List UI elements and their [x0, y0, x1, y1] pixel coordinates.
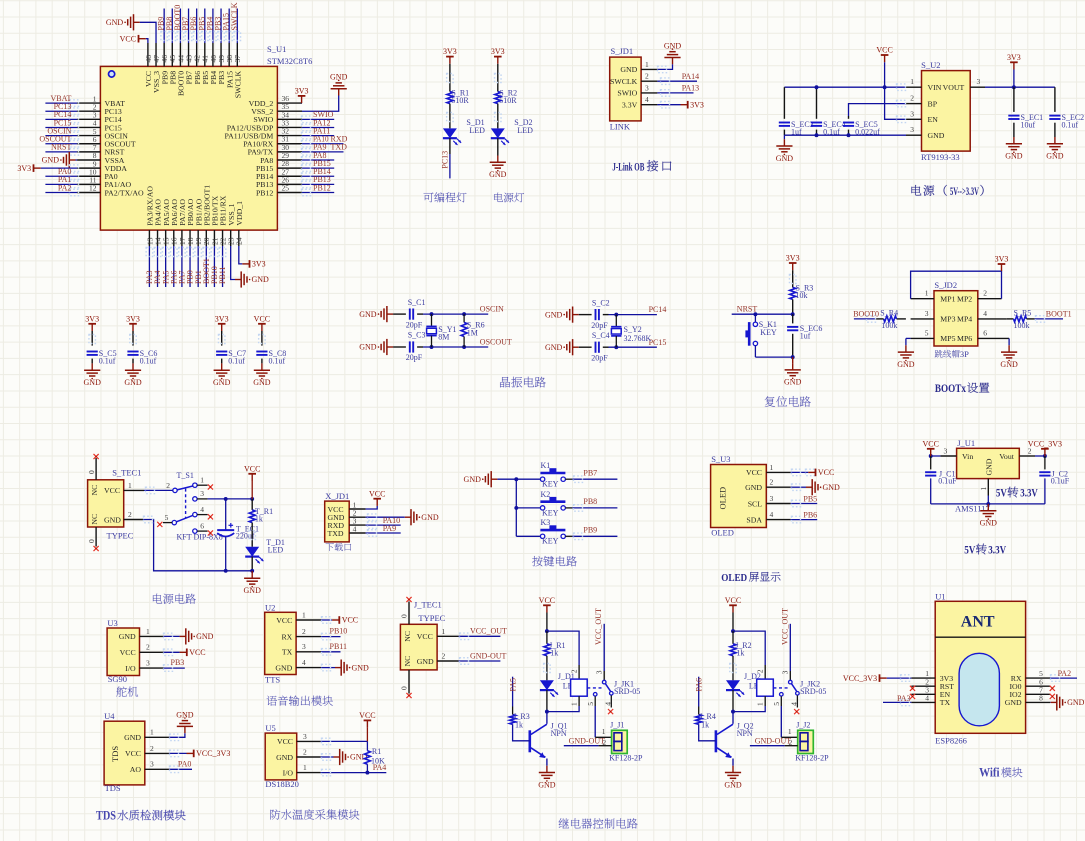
- svg-text:MP6: MP6: [957, 334, 972, 343]
- wire net PC13 (U1 pin 2): [45, 102, 78, 114]
- svg-text:S_C4: S_C4: [592, 331, 610, 340]
- wire net PA13 (S_JD1 pin 3): [657, 84, 699, 97]
- svg-text:VIN: VIN: [928, 83, 942, 92]
- svg-text:VCC_OUT: VCC_OUT: [780, 608, 789, 645]
- svg-text:3V3: 3V3: [786, 254, 800, 263]
- connector X_JD1 value: [326, 543, 352, 551]
- svg-text:STM32C8T6: STM32C8T6: [267, 56, 312, 66]
- svg-text:J_U1: J_U1: [957, 438, 975, 448]
- svg-text:PA2: PA2: [58, 183, 72, 192]
- svg-text:2: 2: [303, 747, 307, 756]
- wire net PA12 (U1 pin 33): [302, 118, 335, 130]
- svg-text:3: 3: [200, 489, 204, 498]
- svg-text:SWCLK: SWCLK: [234, 71, 243, 99]
- wire+ground (U3 pin 1): [163, 628, 213, 644]
- connector U5 pins: [276, 732, 321, 778]
- connector S_JD2 body: [934, 291, 978, 346]
- svg-text:GND: GND: [42, 156, 60, 165]
- svg-text:GND: GND: [1005, 152, 1023, 161]
- svg-text:1k: 1k: [550, 648, 558, 657]
- svg-text:3.3V: 3.3V: [1020, 488, 1038, 500]
- power VCC (power circuit): [244, 464, 260, 481]
- svg-text:AO: AO: [130, 765, 142, 774]
- svg-text:TYPEC: TYPEC: [418, 613, 445, 623]
- svg-text:NRST: NRST: [737, 305, 758, 314]
- wire net PA6 (U1 pin 16): [169, 246, 178, 287]
- LED S_D1: [443, 118, 485, 145]
- svg-text:1k: 1k: [736, 648, 744, 657]
- svg-text:PA2/TX/AO: PA2/TX/AO: [105, 188, 145, 197]
- IC J_U1 body: [957, 448, 1020, 478]
- svg-text:K3: K3: [541, 518, 551, 527]
- ground (relay 1): [538, 766, 556, 790]
- wire+ground (U1 pin 8): [1050, 694, 1085, 710]
- svg-text:PA6: PA6: [695, 678, 704, 692]
- svg-text:3: 3: [302, 642, 306, 651]
- svg-text:AMS1117: AMS1117: [955, 504, 990, 514]
- svg-text:1: 1: [302, 610, 306, 619]
- svg-text:4: 4: [645, 95, 649, 104]
- caption crystal circuit: [500, 377, 546, 388]
- capacitor S_C6 0.1uf (3V3 bypass): [124, 314, 157, 387]
- wire net PA11 (U1 pin 32): [302, 126, 335, 138]
- svg-text:GND: GND: [545, 310, 563, 319]
- power VCC (input): [876, 46, 892, 90]
- wire keys common bus: [497, 477, 540, 536]
- power VCC (U1 pin 48): [120, 34, 148, 43]
- power VCC_3V3 (U4 pin 2): [169, 749, 230, 758]
- svg-text:PB8: PB8: [583, 497, 597, 506]
- svg-text:0: 0: [400, 686, 409, 690]
- svg-text:GND-OUT: GND-OUT: [470, 651, 507, 660]
- capacitor J_C1 0.1uF: [925, 456, 957, 504]
- caption servo: [116, 686, 138, 696]
- svg-text:4: 4: [200, 505, 204, 514]
- wire net BOOT1: [1035, 309, 1072, 322]
- svg-text:10k: 10k: [796, 291, 808, 300]
- IC J_U1 value AMS1117: [955, 504, 990, 514]
- wire net PB8 (U1 pin 45): [165, 9, 176, 44]
- ground VSSA (U1 pin 8): [42, 152, 77, 168]
- power VCC_3V3 (U1 pin 1): [843, 674, 911, 683]
- svg-text:MP5: MP5: [940, 334, 955, 343]
- svg-text:0.1uF: 0.1uF: [1051, 477, 1070, 486]
- wire net PB4 (U1 pin 40): [205, 9, 216, 44]
- svg-text:GND: GND: [928, 131, 945, 140]
- capacitor S_EC5 0.022uf: [843, 116, 880, 137]
- svg-text:0: 0: [87, 470, 96, 474]
- connector S_JD1 body: [610, 57, 641, 121]
- svg-text:ESP8266: ESP8266: [935, 736, 967, 746]
- svg-text:TXD: TXD: [328, 529, 344, 538]
- power 3V3 (BOOTx): [995, 255, 1009, 272]
- capacitor T_EC1 220uf: [217, 499, 259, 573]
- svg-text:3V3: 3V3: [17, 164, 31, 173]
- svg-text:Vin: Vin: [962, 452, 973, 461]
- svg-text:VCC: VCC: [277, 737, 293, 746]
- svg-text:PA0: PA0: [178, 760, 192, 769]
- svg-text:PB11: PB11: [218, 267, 227, 285]
- connector J_TEC1 body: [400, 624, 437, 670]
- svg-text:OSCOUT: OSCOUT: [480, 338, 512, 347]
- resistor J_R2 1k: [730, 631, 752, 657]
- wire+ground up (U4 pin 1): [169, 710, 193, 740]
- svg-text:3: 3: [944, 446, 948, 455]
- caption voice output module: [267, 696, 333, 706]
- svg-text:RX: RX: [281, 632, 292, 641]
- connector S_JD2 reference: [934, 280, 957, 290]
- svg-text:PA13: PA13: [682, 84, 700, 93]
- wire net PA10 (U1 pin 31): [302, 135, 348, 147]
- svg-text:PB6: PB6: [803, 510, 817, 519]
- wire LED to collector (relay 1): [545, 690, 549, 713]
- svg-text:BOOTx: BOOTx: [935, 383, 966, 395]
- svg-text:TDS: TDS: [110, 746, 120, 762]
- IC S_U2 body: [922, 71, 971, 152]
- svg-text:PB3: PB3: [171, 658, 185, 667]
- svg-text:8M: 8M: [438, 333, 449, 342]
- svg-text:PB10: PB10: [330, 627, 348, 636]
- svg-text:BOOT1: BOOT1: [1046, 309, 1072, 318]
- svg-text:37: 37: [233, 55, 242, 63]
- resistor J_R4 1k (base): [696, 707, 716, 741]
- relay coil J_JK2: [733, 679, 826, 712]
- svg-text:OLED: OLED: [717, 487, 727, 510]
- svg-text:3P: 3P: [960, 349, 969, 359]
- svg-text:5: 5: [586, 702, 595, 706]
- svg-text:J_J1: J_J1: [610, 720, 624, 729]
- svg-text:3.3V: 3.3V: [622, 101, 638, 110]
- wire net PA0 (U1 pin 10): [45, 167, 78, 179]
- no-connect pin 0 (J_TEC1 top): [400, 597, 412, 624]
- svg-text:VCC_3V3: VCC_3V3: [196, 749, 230, 758]
- svg-text:VCC_OUT: VCC_OUT: [594, 608, 603, 645]
- connector S_JD1 pins: [610, 60, 657, 110]
- svg-text:S_C2: S_C2: [592, 298, 610, 307]
- svg-text:20pF: 20pF: [406, 321, 423, 330]
- wire net PB14 (U1 pin 27): [302, 167, 335, 179]
- connector U3 body: [107, 628, 139, 676]
- wire net PA4 (U5 pin 1): [321, 763, 387, 776]
- svg-text:S_U1: S_U1: [267, 44, 286, 54]
- svg-text:2: 2: [983, 289, 987, 298]
- svg-text:OLED: OLED: [711, 528, 734, 538]
- connector U4 body: [104, 721, 145, 785]
- svg-text:GND: GND: [176, 710, 194, 719]
- power 3V3 (LED circuit 2): [491, 47, 505, 64]
- power 3V3 (reset): [786, 254, 800, 271]
- svg-text:S_C1: S_C1: [408, 298, 426, 307]
- caption 电源灯: [494, 193, 524, 203]
- svg-text:MP4: MP4: [957, 315, 972, 324]
- svg-text:S_TEC1: S_TEC1: [112, 467, 141, 477]
- wire+ground (X_JD1 pin 2): [366, 509, 439, 525]
- svg-text:3V3: 3V3: [1007, 53, 1021, 62]
- svg-text:TDS: TDS: [105, 783, 121, 793]
- resistor S_R3 10k: [790, 283, 814, 300]
- wire net PB9 (U1 pin 46): [157, 9, 168, 44]
- svg-text:GND: GND: [823, 483, 841, 492]
- transistor J_Q2 NPN: [716, 712, 754, 766]
- svg-text:KEY: KEY: [542, 537, 559, 546]
- svg-text:U3: U3: [107, 618, 117, 628]
- wire EN tie to VIN: [885, 87, 906, 122]
- svg-text:SDA: SDA: [746, 515, 762, 524]
- svg-text:TX: TX: [282, 648, 293, 657]
- connector U5 body: [265, 733, 297, 780]
- svg-text:3: 3: [770, 494, 774, 503]
- svg-text:1: 1: [910, 77, 914, 86]
- wire OSCIN: [423, 305, 504, 316]
- wire net PB7 (U1 pin 43): [181, 9, 192, 44]
- ground (U1 pin 23 VSS_1): [231, 246, 269, 288]
- connector J_TEC1 value TYPEC: [418, 613, 445, 623]
- wire net PA3 (U1 pin 13): [145, 246, 154, 287]
- svg-text:TTS: TTS: [265, 674, 280, 684]
- svg-text:SRD-05: SRD-05: [800, 687, 826, 696]
- connector U2 reference: [265, 602, 275, 612]
- wire to LED (relay 1): [544, 656, 551, 681]
- svg-text:GND: GND: [538, 780, 556, 789]
- svg-text:T_S1: T_S1: [177, 471, 194, 480]
- svg-text:VCC: VCC: [120, 648, 136, 657]
- svg-text:GND: GND: [124, 733, 141, 742]
- transistor J_Q1 NPN: [530, 712, 568, 766]
- pushbutton K1 KEY: [540, 461, 565, 489]
- connector J_TEC1 pins: [403, 627, 459, 667]
- wire node to coil (relay 2): [733, 631, 765, 679]
- svg-text:MP2: MP2: [957, 295, 972, 304]
- svg-text:GND: GND: [275, 663, 292, 672]
- svg-text:GND: GND: [776, 154, 794, 163]
- capacitor S_C3 20pF: [393, 331, 425, 362]
- svg-text:VOUT: VOUT: [943, 83, 965, 92]
- svg-text:NC: NC: [403, 656, 412, 667]
- svg-text:VCC: VCC: [189, 648, 205, 657]
- svg-text:1: 1: [146, 627, 150, 636]
- connector U3 value SG90: [108, 674, 127, 684]
- wire net PB5 (U1 pin 41): [197, 9, 208, 44]
- svg-text:2: 2: [302, 627, 306, 636]
- svg-text:PB12: PB12: [256, 188, 273, 197]
- resistor S_R5 100k: [1007, 308, 1035, 330]
- svg-text:GND: GND: [421, 513, 439, 522]
- ground (MP5): [897, 338, 915, 369]
- svg-text:1: 1: [979, 487, 988, 491]
- module U1 reference: [935, 591, 945, 601]
- svg-text:S_JD1: S_JD1: [611, 46, 634, 56]
- svg-text:0.1uF: 0.1uF: [938, 477, 957, 486]
- connector S_U3 reference: [711, 454, 730, 464]
- wire net BOOT0: [853, 309, 879, 322]
- wire net PB6 (S_U3 pin 4): [791, 510, 818, 522]
- svg-text:S_Y2: S_Y2: [624, 325, 642, 334]
- svg-text:3: 3: [910, 125, 914, 134]
- wire net PB12 (U1 pin 25): [302, 183, 335, 195]
- svg-text:1: 1: [200, 475, 204, 484]
- capacitor S_EC3 1uf: [779, 87, 814, 136]
- svg-text:GND: GND: [276, 753, 293, 762]
- svg-text:PB9: PB9: [583, 526, 597, 535]
- svg-text:I/O: I/O: [283, 768, 294, 777]
- ground (relay 2): [724, 766, 742, 790]
- svg-text:GND: GND: [784, 378, 802, 387]
- svg-text:3V3: 3V3: [443, 47, 457, 56]
- svg-text:GND: GND: [489, 170, 507, 179]
- connector U4 pins: [124, 728, 169, 774]
- ground (S_C1 left): [359, 306, 393, 322]
- svg-text:2: 2: [645, 72, 649, 81]
- capacitor S_C2 20pF: [579, 298, 610, 330]
- wire net PA5 (relay 1 base): [509, 677, 518, 707]
- svg-text:3: 3: [910, 109, 914, 118]
- ground (U1 pin 47 VSS_3): [106, 14, 156, 43]
- connector S_JD2 pins MP1-MP6: [911, 289, 1010, 344]
- wire T_D1 to ground: [250, 557, 254, 573]
- wire net OSCIN (U1 pin 5): [45, 126, 78, 138]
- relay contacts J_JK2: [772, 608, 799, 737]
- power VCC (J_U1 Vin): [922, 439, 940, 458]
- caption BOOTx setting: [935, 382, 989, 395]
- connector X_JD1 reference: [325, 491, 349, 501]
- connector U3 reference: [107, 618, 117, 628]
- wire net PA0 (U4 pin 3): [169, 760, 192, 773]
- svg-text:3V3: 3V3: [215, 314, 229, 323]
- wire net PA15 (U1 pin 38): [222, 9, 233, 44]
- svg-text:U1: U1: [935, 591, 945, 601]
- module U1 pins: [911, 669, 1050, 707]
- svg-text:0: 0: [400, 614, 409, 618]
- svg-text:0: 0: [87, 539, 96, 543]
- wire net PA3 (U1 pin 4): [883, 694, 911, 705]
- ground (power circuit): [244, 571, 262, 595]
- svg-text:VCC: VCC: [120, 34, 136, 43]
- svg-text:Wifi: Wifi: [979, 766, 1000, 780]
- svg-text:1: 1: [128, 481, 132, 490]
- svg-text:VCC_3V3: VCC_3V3: [843, 674, 877, 683]
- IC U1 STM32C8T6 body: [100, 66, 277, 230]
- ground (S_C4 left): [545, 339, 579, 355]
- connector S_JD1 reference: [611, 46, 634, 56]
- ground (S_C3 left): [359, 339, 393, 355]
- resistor S_R6 1M: [461, 314, 484, 347]
- pushbutton K3 KEY: [540, 518, 565, 546]
- caption reset circuit: [765, 396, 811, 407]
- connector S_JD2 value: [935, 349, 969, 359]
- svg-text:1: 1: [602, 727, 606, 736]
- wire VCC to node (relay 1): [545, 613, 549, 634]
- no-connect (U1 pin 3 EN): [910, 694, 915, 699]
- svg-text:1: 1: [925, 289, 929, 298]
- wire net PA2 (U1 pin 12): [45, 183, 78, 195]
- wire VCC rail to pin 3: [321, 728, 368, 745]
- svg-text:1: 1: [442, 627, 446, 636]
- svg-text:510R: 510R: [451, 96, 469, 105]
- svg-text:S_R5: S_R5: [1014, 308, 1032, 317]
- power 3V3 (U1 pin 9): [17, 164, 78, 173]
- connector S_TEC1 body: [88, 480, 124, 527]
- svg-text:KEY: KEY: [542, 508, 559, 517]
- svg-text:10uf: 10uf: [1021, 120, 1036, 129]
- svg-text:GND: GND: [1067, 698, 1085, 707]
- svg-text:3V3: 3V3: [295, 87, 309, 96]
- IC S_U2 pins: [906, 77, 985, 140]
- svg-text:K2: K2: [541, 490, 551, 499]
- power VCC (relay 2): [725, 596, 741, 613]
- svg-text:J_TEC1: J_TEC1: [414, 600, 442, 610]
- svg-text:KF128-2P: KF128-2P: [609, 754, 643, 763]
- svg-text:NC: NC: [403, 631, 412, 642]
- resistor S_R1 510R: [447, 89, 470, 106]
- svg-text:ANT: ANT: [961, 614, 995, 631]
- svg-text:KEY: KEY: [760, 328, 777, 337]
- svg-text:U2: U2: [265, 602, 275, 612]
- svg-text:TYPEC: TYPEC: [107, 530, 134, 540]
- svg-text:PA2: PA2: [1058, 669, 1072, 678]
- no-connect pin 0 (J_TEC1 bottom): [400, 670, 412, 698]
- wire node to T_R1: [251, 499, 253, 510]
- svg-text:VCC: VCC: [254, 314, 270, 323]
- svg-text:PB11: PB11: [330, 642, 348, 651]
- connector S_JD1 value LINK: [610, 122, 631, 132]
- connector X_JD1 pins: [328, 500, 366, 537]
- svg-text:GND: GND: [724, 780, 742, 789]
- wire net PB3 (U1 pin 39): [214, 9, 225, 44]
- IC U1 left pins 1-12: [77, 94, 144, 197]
- terminal J_J2 KF128-2P: [750, 720, 829, 762]
- svg-text:3: 3: [150, 760, 154, 769]
- svg-text:2: 2: [128, 510, 132, 519]
- wire net NRST: [732, 305, 795, 317]
- caption TDS module: [96, 809, 186, 823]
- wire+ground (S_JD1 pin 1): [657, 41, 681, 72]
- svg-text:GND: GND: [124, 378, 142, 387]
- svg-text:5V: 5V: [996, 488, 1008, 500]
- svg-text:OSCIN: OSCIN: [480, 305, 504, 314]
- svg-text:LINK: LINK: [610, 122, 631, 132]
- svg-text:1: 1: [645, 60, 649, 69]
- svg-text:NPN: NPN: [551, 729, 567, 738]
- svg-text:TX: TX: [940, 698, 951, 707]
- svg-text:I/O: I/O: [125, 664, 136, 673]
- wire net PA5 (U1 pin 15): [161, 246, 170, 287]
- wire net PB15 (U1 pin 28): [302, 159, 335, 171]
- svg-text:GND: GND: [252, 275, 270, 284]
- svg-text:VCC: VCC: [539, 596, 555, 605]
- svg-text:SCL: SCL: [748, 499, 763, 508]
- svg-text:VCC_OUT: VCC_OUT: [470, 627, 507, 636]
- svg-text:4: 4: [770, 510, 774, 519]
- connector S_TEC1 value TYPEC: [107, 530, 134, 540]
- wire net OSCOUT (U1 pin 6): [39, 135, 78, 147]
- wire net PC13 (below S_D1): [441, 138, 450, 178]
- svg-text:GND: GND: [417, 657, 434, 666]
- svg-text:8: 8: [1039, 694, 1043, 703]
- svg-text:3: 3: [303, 732, 307, 741]
- svg-text:VCC: VCC: [104, 486, 120, 495]
- svg-text:SWIO: SWIO: [617, 89, 637, 98]
- svg-text:NC: NC: [90, 485, 99, 496]
- svg-text:OLED: OLED: [721, 573, 747, 584]
- wire net PB3 (U3 pin 3): [163, 658, 184, 671]
- connector J_TEC1 reference: [414, 600, 442, 610]
- svg-text:3V3: 3V3: [491, 47, 505, 56]
- svg-text:PC14: PC14: [649, 305, 667, 314]
- power VCC (relay 1): [539, 596, 555, 613]
- wire+ground (U1 pin 35 VSS_2): [302, 73, 348, 112]
- switch T_S1 KFT DIP-8X8: [157, 471, 223, 541]
- svg-text:2: 2: [910, 94, 914, 103]
